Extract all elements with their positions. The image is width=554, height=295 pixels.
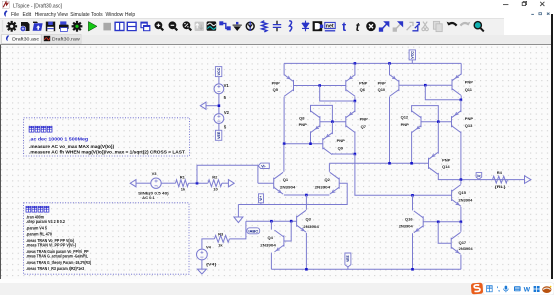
- tab Draft30.raw: [42, 34, 82, 43]
- wire: [354, 96, 356, 100]
- net flag IABC: [247, 227, 260, 233]
- transistor Q5: [284, 74, 293, 96]
- wire: [206, 104, 218, 106]
- wire Q3 collector: [305, 195, 307, 210]
- node junction: [411, 268, 414, 271]
- wire Q7 emitter: [354, 101, 356, 112]
- svg-text:2N3904: 2N3904: [315, 184, 331, 189]
- power flag VEE (left supply): [215, 130, 221, 140]
- toolbar icon zoom in: [155, 21, 164, 30]
- wire Q4 emitter: [270, 252, 272, 269]
- wire Q4 collector: [270, 221, 272, 229]
- text AC analysis title (Chinese): [29, 126, 34, 132]
- svg-text:Vi-: Vi-: [261, 164, 266, 168]
- toolbar icon save: [46, 22, 55, 32]
- svg-text:PNP: PNP: [360, 116, 369, 121]
- toolbar icon save as: [20, 22, 29, 32]
- toolbar icon inductor: [289, 21, 292, 32]
- svg-text:IABC: IABC: [248, 229, 258, 233]
- toolbar icon zoom full extents: [183, 21, 192, 30]
- svg-text:net: net: [326, 24, 334, 30]
- toolbar icon resistor: [262, 21, 267, 32]
- svg-text:V4: V4: [206, 244, 212, 249]
- svg-text:PNP: PNP: [465, 115, 474, 120]
- toolbar icon cut (disabled): [422, 22, 428, 31]
- svg-text:V2: V2: [224, 110, 230, 115]
- toolbar icon wire: [220, 22, 230, 30]
- wire: [260, 202, 262, 204]
- svg-text:.meas TRAN G_actual param -Gai: .meas TRAN G_actual param -Gain/RL: [26, 253, 88, 258]
- svg-text:R4: R4: [497, 169, 503, 174]
- wire Q16 base row: [423, 220, 461, 222]
- resistor R2: [208, 179, 222, 186]
- svg-text:Vi+: Vi+: [259, 195, 263, 200]
- svg-text:LTspice - [Draft30.asc]: LTspice - [Draft30.asc]: [13, 3, 62, 9]
- svg-text:AC 0.1: AC 0.1: [142, 196, 155, 200]
- svg-text:Q2: Q2: [325, 177, 331, 182]
- toolbar icon component: [313, 21, 324, 31]
- svg-text:Q4: Q4: [268, 235, 274, 240]
- wire Q9 base row: [284, 142, 323, 144]
- svg-text:SINE(0 0.5 40): SINE(0 0.5 40): [138, 191, 169, 195]
- toolbar icon new (gear): [6, 21, 17, 32]
- window restore: [522, 1, 526, 5]
- svg-text:Q15: Q15: [458, 189, 466, 194]
- node junction: [437, 220, 440, 223]
- node junction: [460, 98, 463, 101]
- node junction: [309, 142, 312, 145]
- LTspice app icon: [0, 0, 554, 10]
- node junction: [318, 84, 321, 87]
- window minimize: [503, 4, 508, 6]
- wire Q8 collector loop: [311, 105, 333, 121]
- svg-text:VEE: VEE: [346, 254, 350, 261]
- svg-text:Q10: Q10: [378, 87, 386, 92]
- svg-text:Q7: Q7: [361, 124, 367, 129]
- node junction: [331, 120, 334, 123]
- wire Q17 collector: [460, 221, 462, 231]
- transistor Q11: [452, 73, 461, 95]
- node junction: [388, 162, 391, 165]
- wire: [389, 63, 391, 75]
- wire: [161, 182, 175, 184]
- toolbar icon drag (disabled): [393, 22, 402, 31]
- wire Q10 collector: [389, 96, 391, 162]
- wire Q14 collector: [438, 172, 524, 179]
- toolbar gripper: [2, 21, 4, 32]
- svg-text:VEE: VEE: [217, 131, 221, 139]
- wire Q3 emitter: [305, 232, 307, 269]
- svg-text:Q11: Q11: [465, 87, 473, 92]
- svg-text:.param RL 470: .param RL 470: [26, 231, 52, 236]
- wire Q16 emitter: [412, 233, 414, 269]
- voltage source V4: [197, 249, 208, 260]
- svg-text:.param V4 5: .param V4 5: [26, 225, 47, 230]
- wire: [347, 267, 349, 269]
- wire: [258, 182, 274, 184]
- port flag (left arrow) at V1/V2 midpoint: [200, 102, 206, 109]
- wire VCC rail: [284, 62, 461, 64]
- svg-text:R2: R2: [212, 174, 218, 179]
- svg-text:',: ',: [497, 286, 501, 293]
- transistor Q3: [297, 210, 306, 232]
- svg-text:PNP: PNP: [337, 138, 346, 143]
- svg-text:.ac dec 10000 1 500Meg: .ac dec 10000 1 500Meg: [29, 136, 88, 141]
- svg-text:2N3904: 2N3904: [260, 242, 276, 247]
- window right edge above canvas: [551, 14, 553, 45]
- wire emitters row: [284, 194, 330, 196]
- wire: [201, 259, 203, 268]
- transistor Q12: [412, 110, 421, 132]
- svg-text:V1: V1: [224, 83, 230, 88]
- wire: [218, 76, 220, 83]
- transistor Q10: [390, 74, 399, 96]
- toolbar: [0, 18, 504, 35]
- wire: [460, 96, 462, 100]
- wire Q12-Q13 base: [421, 120, 452, 122]
- svg-text:.meas TRAN G_theory Param -19.: .meas TRAN G_theory Param -19.2*I(R3): [26, 259, 91, 264]
- node junction: [411, 194, 414, 197]
- svg-text:PNP: PNP: [401, 122, 410, 127]
- transistor Q2: [330, 172, 339, 194]
- svg-text:Q12: Q12: [401, 114, 409, 119]
- svg-text:10: 10: [213, 186, 218, 191]
- wire diode connection Q6: [320, 85, 355, 101]
- window close: [540, 2, 544, 6]
- toolbar icon ground: [233, 22, 242, 31]
- wire IABC drop: [229, 221, 246, 239]
- wire: [411, 59, 413, 63]
- svg-text:1k: 1k: [218, 242, 223, 247]
- title bar: [0, 0, 554, 10]
- svg-text:2N3904: 2N3904: [459, 245, 474, 250]
- svg-text:Q13: Q13: [465, 123, 473, 128]
- transistor Q13: [452, 110, 461, 132]
- svg-text:W: W: [524, 286, 531, 293]
- power flag VCC (top rail): [409, 49, 415, 59]
- toolbar icon control panel (gear): [72, 21, 83, 32]
- toolbar icon autorange (disabled): [195, 22, 204, 31]
- resistor R4: [493, 176, 508, 183]
- IME toolbox icon: [534, 286, 540, 292]
- transistor Q8: [311, 110, 320, 132]
- wire Q8-Q7 base: [320, 120, 346, 122]
- port flag (right arrow) output: [525, 175, 531, 183]
- transistor Q6: [346, 74, 355, 96]
- node junction: [270, 219, 273, 222]
- wire: [283, 96, 285, 143]
- node junction: [354, 62, 357, 65]
- wire Q13 collector: [460, 131, 462, 179]
- Sogou IME panel: [483, 283, 554, 295]
- svg-text:PNP: PNP: [442, 157, 451, 162]
- svg-text:PNP: PNP: [465, 79, 474, 84]
- node junction: [388, 62, 391, 65]
- svg-text:t: t: [342, 20, 347, 34]
- text transient analysis title (Chinese): [26, 206, 31, 212]
- wire Q8 emitter: [310, 131, 312, 143]
- wire Q17 emitter: [460, 254, 462, 269]
- net flag Vi-: [258, 163, 269, 168]
- svg-text:Q9: Q9: [338, 145, 344, 150]
- wire base row Q3 Q4: [246, 220, 297, 222]
- transistor Q17: [451, 232, 460, 254]
- transistor Q15: [452, 184, 461, 206]
- voltage source V3: [151, 178, 161, 188]
- voltage source V2: [214, 113, 224, 123]
- transistor Q1: [274, 172, 283, 194]
- wire: [189, 182, 208, 184]
- port flag (left arrow) at V3: [130, 179, 136, 186]
- canvas right window edge: [551, 45, 553, 280]
- wire: [354, 63, 356, 75]
- svg-text:Q1: Q1: [283, 177, 289, 182]
- wire: [283, 63, 285, 75]
- toolbar icon open: [33, 22, 43, 31]
- toolbar icon tile vertical: [114, 22, 124, 32]
- toolbar icon diode: [302, 21, 309, 32]
- IME keyboard icon: [514, 286, 521, 291]
- svg-text:R3: R3: [218, 231, 224, 236]
- svg-text:Draft30.raw: Draft30.raw: [52, 37, 81, 42]
- port flag (right arrow) after R2: [228, 179, 234, 186]
- svg-text:PNP: PNP: [378, 80, 387, 85]
- toolbar icon halt (disabled): [103, 23, 111, 31]
- svg-text:2N3904: 2N3904: [458, 197, 473, 202]
- wire base row y163: [329, 162, 428, 164]
- toolbar icon run: [88, 22, 97, 32]
- toolbar icon net name: [325, 22, 335, 30]
- net flag Vi+: [259, 193, 264, 202]
- svg-text:R1: R1: [180, 174, 186, 179]
- toolbar icon print: [59, 21, 69, 31]
- tab Draft30.asc (active): [2, 34, 42, 43]
- svg-text:{V4}: {V4}: [206, 261, 217, 266]
- transistor Q16: [414, 210, 423, 232]
- resistor R1: [176, 179, 189, 186]
- wire Vi- riser: [197, 165, 258, 183]
- ground: [234, 217, 243, 223]
- wire: [218, 123, 220, 130]
- IME wubi logo: [542, 286, 551, 293]
- wire Q9 collector: [332, 152, 355, 155]
- toolbar icon redo: [460, 22, 470, 26]
- tab bar: [0, 35, 551, 45]
- svg-text:{RL}: {RL}: [495, 184, 507, 189]
- svg-text:2N3904: 2N3904: [280, 184, 296, 189]
- svg-text:.meas TRAN I_R3 param I(R3)*1e: .meas TRAN I_R3 param I(R3)*1e3: [26, 266, 85, 271]
- node junction: [290, 219, 293, 222]
- toolbar icon move: [380, 22, 389, 31]
- power flag VCC (left supply): [215, 66, 221, 76]
- svg-text:Q16: Q16: [405, 216, 413, 221]
- wire: [355, 154, 452, 195]
- wire: [222, 182, 229, 184]
- toolbar icon waveform: [207, 21, 217, 30]
- toolbar icon copy (disabled): [433, 21, 442, 31]
- wire Q1 collector: [283, 143, 285, 171]
- wire Q2 collector: [328, 163, 330, 172]
- resistor R3: [214, 235, 229, 242]
- svg-text:Q5: Q5: [273, 87, 279, 92]
- toolbar icon tile horizontal: [127, 22, 137, 32]
- svg-text:PNP: PNP: [359, 80, 368, 85]
- svg-text:PNP: PNP: [272, 80, 281, 85]
- wire Q5-Q6 base: [294, 84, 346, 86]
- Sogou logo: [471, 283, 483, 295]
- ground: [197, 269, 206, 274]
- wire Q12 collector loop: [412, 105, 439, 121]
- svg-text:.measure AC vo_max MAX mag(V(I: .measure AC vo_max MAX mag(V(Io)): [29, 144, 115, 149]
- wire Q13 emitter: [460, 99, 462, 111]
- svg-text:Q17: Q17: [459, 239, 467, 244]
- wire: [136, 182, 151, 184]
- wire Q15 collector: [460, 179, 462, 183]
- svg-text:Q14: Q14: [442, 164, 450, 169]
- wire: [460, 63, 462, 74]
- wire: [257, 165, 259, 183]
- svg-text:Q6: Q6: [360, 87, 366, 92]
- wire Q9 emitter: [331, 121, 333, 133]
- toolbar icon cascade: [140, 22, 150, 32]
- svg-text:Draft30.asc: Draft30.asc: [12, 37, 40, 42]
- node junction: [196, 181, 199, 184]
- wire Q10-Q11 base: [399, 84, 452, 86]
- node junction: [305, 268, 308, 271]
- wire Q15 emitter: [460, 206, 462, 221]
- transistor Q9: [323, 132, 332, 154]
- wire Q12 emitter: [411, 131, 413, 163]
- node junction (between V1 and V2): [218, 104, 221, 107]
- svg-text:.step param V4 2 8 0.2: .step param V4 2 8 0.2: [26, 219, 65, 224]
- wire VEE rail: [271, 268, 461, 270]
- wire diode connection Q11: [425, 85, 461, 100]
- IME mic icon: [504, 286, 509, 293]
- wire: [237, 204, 239, 217]
- wire Q17 base: [438, 221, 451, 242]
- node junction: [460, 220, 463, 223]
- wire Q2 base: [238, 183, 347, 204]
- svg-text:.measure AC fh WHEN mag(V(Io)): .measure AC fh WHEN mag(V(Io))/vo_max = …: [29, 149, 185, 154]
- power flag VEE (bottom rail): [345, 253, 351, 267]
- status bar: [0, 279, 554, 282]
- directive box transient analysis: [24, 202, 190, 273]
- toolbar icon label net: [246, 21, 254, 31]
- schematic canvas: [0, 45, 554, 280]
- IME lang (Chinese char): [487, 286, 493, 292]
- node junction: [283, 142, 286, 145]
- svg-text:VCC: VCC: [217, 67, 221, 75]
- svg-text:Q3: Q3: [306, 216, 312, 221]
- svg-text:.meas TRAN Vi_PP PP V(Vi-): .meas TRAN Vi_PP PP V(Vi-): [26, 242, 76, 247]
- toolbar icon find: [474, 22, 484, 32]
- svg-text:2N3904: 2N3904: [399, 223, 414, 228]
- svg-text:1k: 1k: [181, 186, 186, 191]
- svg-text:PNP: PNP: [299, 122, 308, 127]
- wire Q7 collector: [354, 131, 356, 154]
- svg-text:Q8: Q8: [299, 115, 305, 120]
- wire Q14 emitter: [437, 121, 439, 153]
- wire: [202, 238, 215, 248]
- toolbar icon delete: [366, 22, 376, 32]
- svg-text:V3: V3: [152, 171, 158, 176]
- transistor Q14: [429, 152, 438, 174]
- net flag Io: [476, 172, 482, 179]
- wire: [218, 93, 220, 113]
- voltage source V1: [214, 83, 224, 93]
- wire Q16 collector: [412, 195, 414, 210]
- node junction: [437, 120, 440, 123]
- svg-text:2N3904: 2N3904: [303, 223, 319, 228]
- toolbar icon zoom out: [169, 21, 178, 30]
- node junction: [424, 83, 427, 86]
- transistor Q4: [275, 230, 284, 252]
- svg-text:Io: Io: [477, 174, 480, 178]
- canvas left window edge: [0, 45, 1, 280]
- toolbar icon capacitor: [273, 21, 281, 31]
- node junction: [305, 193, 308, 196]
- node junction: [354, 99, 357, 102]
- menu bar: [0, 10, 554, 18]
- directive box AC analysis: [24, 117, 190, 155]
- wire Q4 base: [284, 221, 291, 241]
- node junction: [460, 178, 463, 181]
- transistor Q7: [346, 110, 355, 132]
- toolbar icon undo: [447, 22, 457, 26]
- node junction: [354, 152, 357, 155]
- svg-text:VCC: VCC: [411, 50, 415, 58]
- toolbar icon paste (disabled): [407, 22, 420, 30]
- node junction: [410, 162, 413, 165]
